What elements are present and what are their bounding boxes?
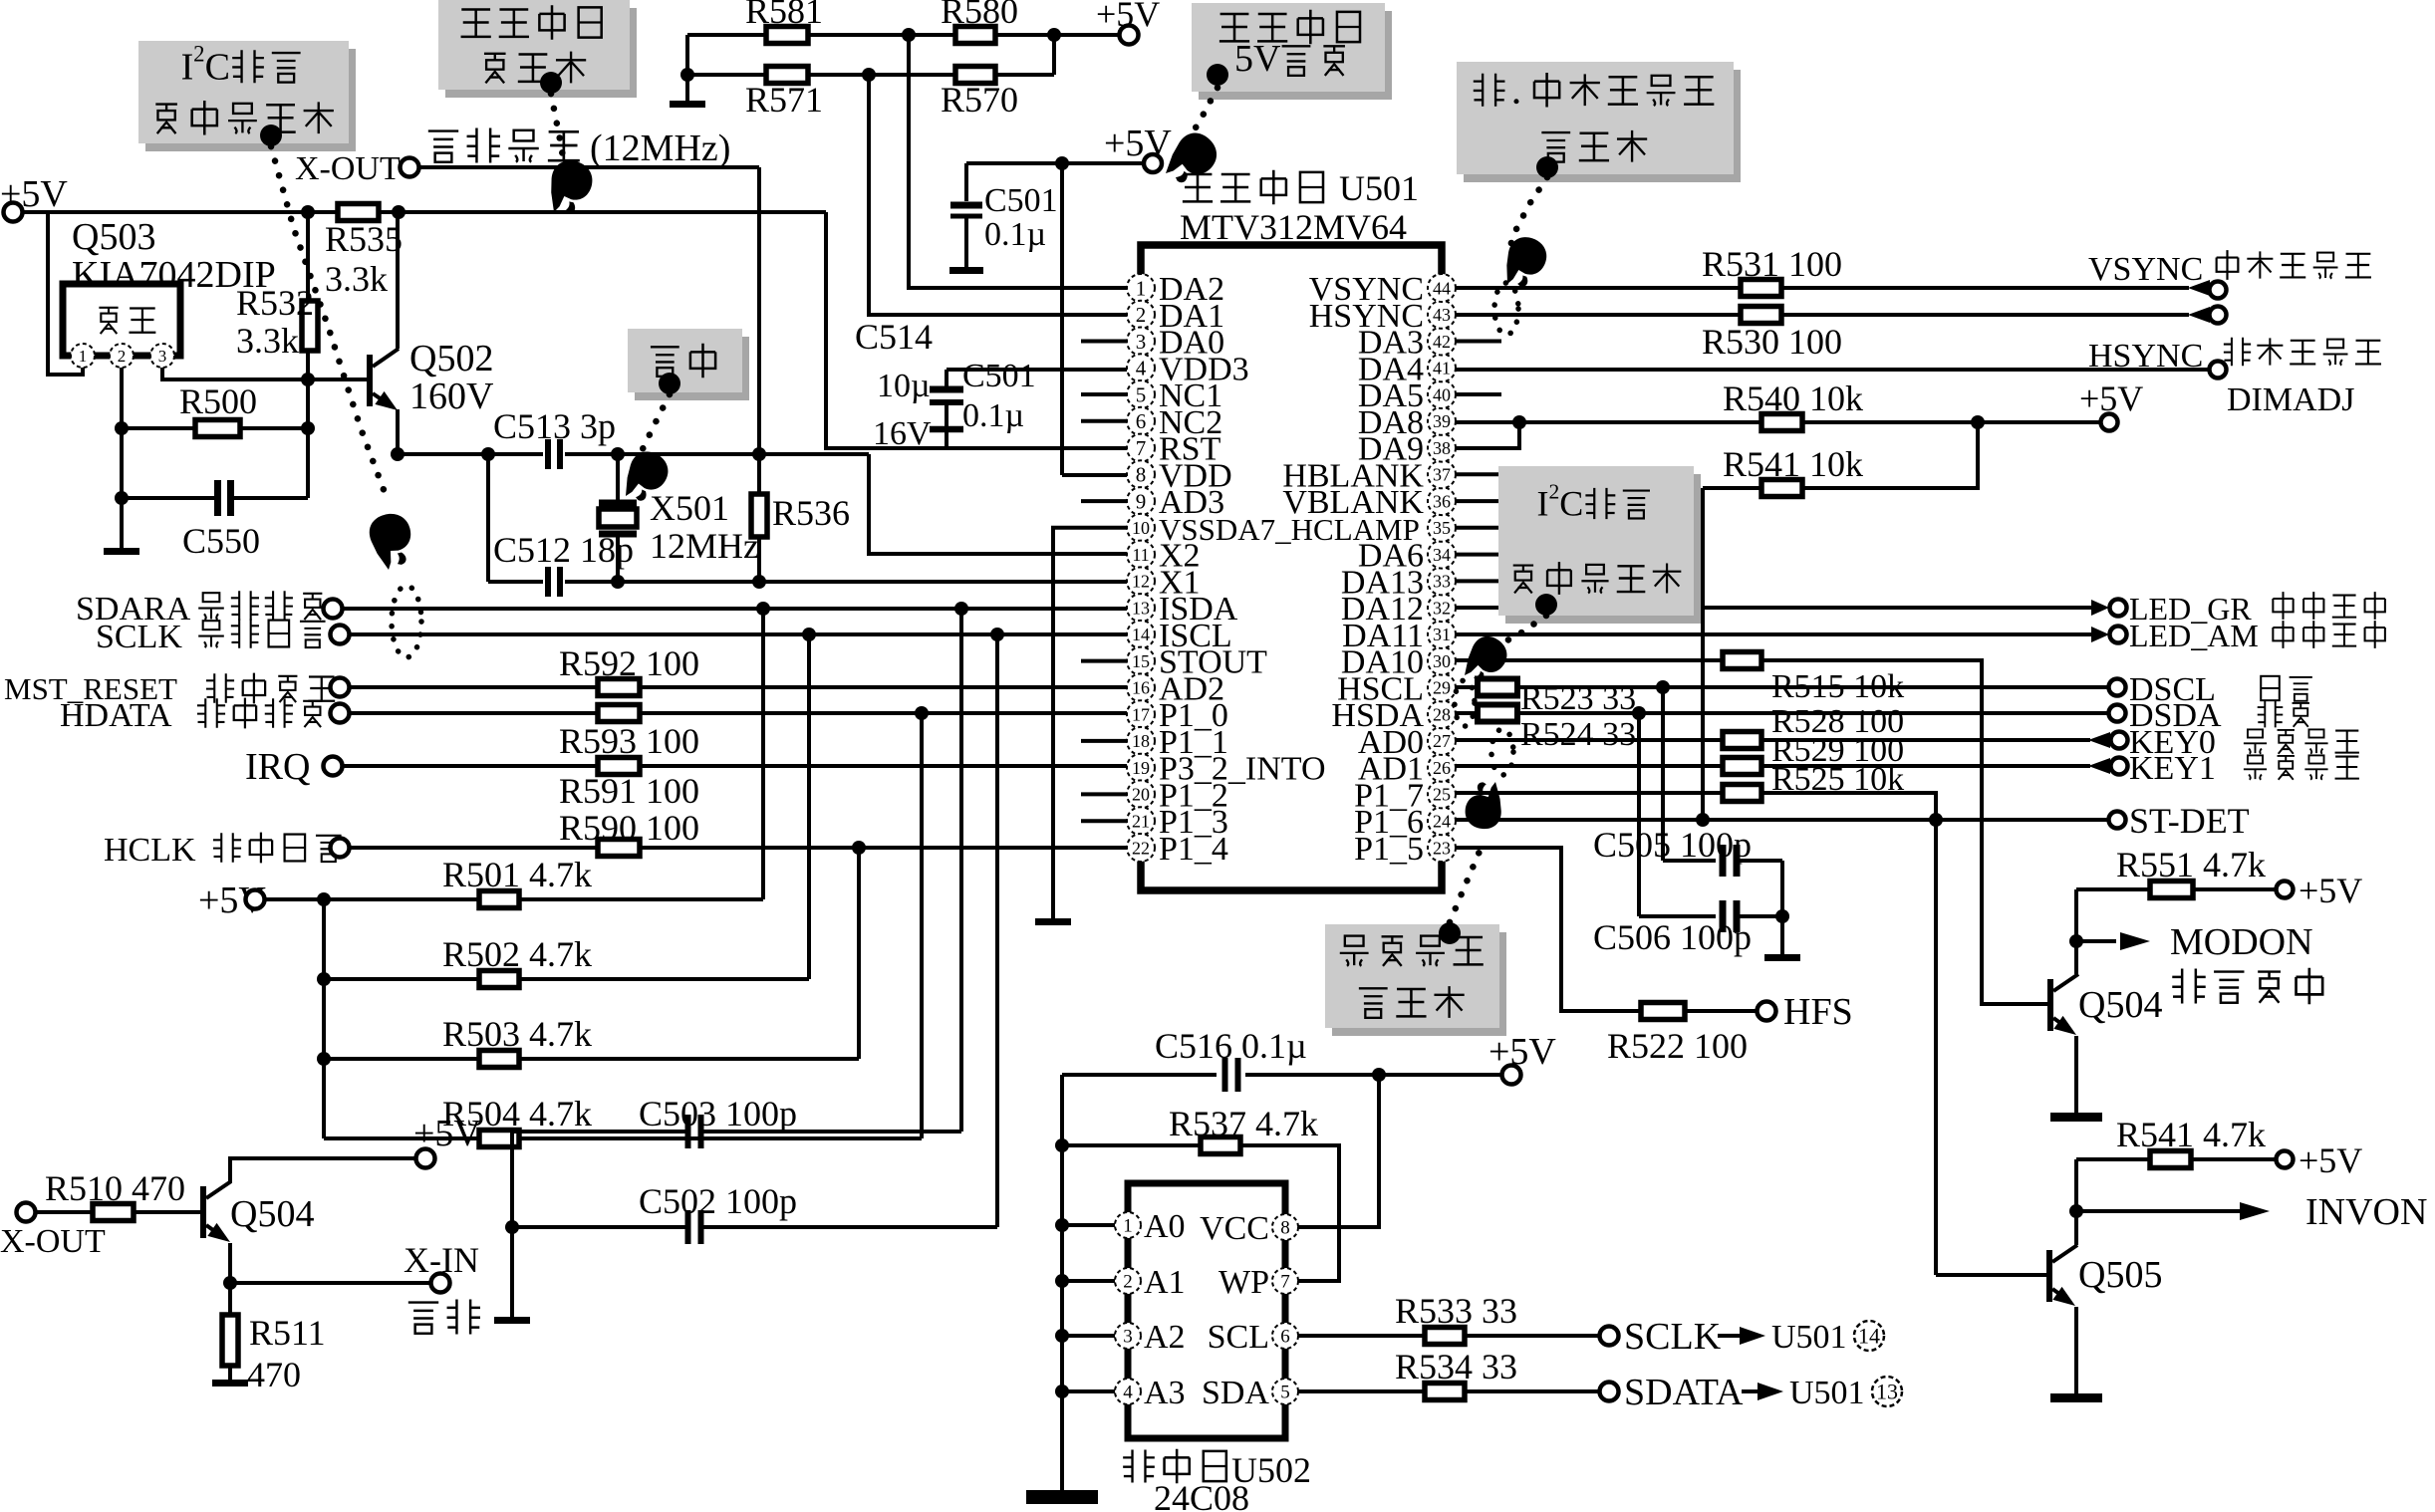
wire R532 top [306, 212, 310, 301]
wire C512 left branch [486, 454, 490, 582]
wire pin25 to R525 [1456, 791, 1723, 795]
wire pin23 to R522 [1456, 848, 1641, 1011]
svg-text:14: 14 [1858, 1324, 1880, 1349]
junction HDATA/R504 [915, 706, 929, 720]
reset IC Q503 box [63, 284, 180, 356]
svg-text:A1: A1 [1144, 1264, 1186, 1301]
C501 bottom lead [964, 218, 968, 267]
arrow HSYNC [2188, 307, 2210, 323]
wire Q503 pin2 down [120, 368, 124, 498]
pin 9 U501 [1127, 487, 1155, 515]
label wenya kongzhi [2172, 968, 2322, 1004]
pin 37 U501 [1428, 460, 1456, 488]
dotted line fuweiduan [551, 94, 566, 174]
pin 28 U501 [1428, 700, 1456, 728]
svg-text:41: 41 [1433, 359, 1451, 378]
wire R571-R570 [808, 73, 955, 77]
pin 15 U501 [1127, 647, 1155, 675]
svg-text:R533 33: R533 33 [1395, 1291, 1517, 1331]
pin 11 U501 [1127, 541, 1155, 569]
pin 17 U501 [1127, 700, 1155, 728]
ground C501 [949, 267, 983, 274]
capacitor C505 [1723, 845, 1737, 877]
pin 8 U502 [1272, 1214, 1298, 1240]
ground Q504r [2050, 1113, 2102, 1122]
junction +5V/R532 [301, 205, 315, 219]
svg-text:U501: U501 [1789, 1375, 1865, 1411]
svg-text:4: 4 [1136, 357, 1147, 380]
svg-text:C501: C501 [962, 358, 1036, 394]
svg-text:ST-DET: ST-DET [2129, 801, 2250, 841]
capacitor C503 [688, 1115, 701, 1148]
wire R501 right [519, 897, 763, 901]
Q504bl emitter arrow [207, 1223, 234, 1249]
hand jiankong up [1464, 780, 1503, 831]
terminal SCLK [1600, 1327, 1619, 1346]
Q505 collector diag [2052, 1245, 2077, 1262]
junction R540/R541 [1971, 415, 1985, 429]
resistor R593 (HDATA row) [598, 705, 640, 722]
stub pin 9 [1081, 499, 1127, 503]
resistor R570 [955, 67, 995, 84]
svg-text:2: 2 [118, 347, 127, 366]
wire to ground C550 [120, 498, 124, 548]
svg-text:30: 30 [1433, 651, 1451, 671]
stub pin 35 [1456, 526, 1501, 530]
pin 40 U501 [1428, 380, 1456, 408]
junction A2 [1055, 1329, 1069, 1343]
pin 44 U501 [1428, 274, 1456, 302]
pin 6 U501 [1127, 407, 1155, 435]
svg-text:17: 17 [1132, 705, 1150, 725]
wire pin43 to R530 [1456, 313, 1741, 317]
junction R571 left [680, 68, 694, 82]
svg-text:Q505: Q505 [2078, 1254, 2162, 1296]
svg-text:R532: R532 [236, 283, 314, 323]
svg-text:R535: R535 [325, 219, 403, 259]
ground VSS [1035, 918, 1071, 925]
svg-text:C503 100p: C503 100p [639, 1094, 797, 1134]
pin 7 U501 [1127, 434, 1155, 462]
svg-text:X-OUT: X-OUT [0, 1223, 106, 1260]
pin 42 U501 [1428, 328, 1456, 356]
svg-text:0.1µ: 0.1µ [984, 216, 1046, 253]
wire VCC to +5V [1298, 1075, 1379, 1227]
svg-text:34: 34 [1433, 545, 1451, 565]
terminal X-OUT top [401, 158, 419, 177]
svg-text:11: 11 [1132, 545, 1149, 565]
wire R540 to +5V [1802, 420, 2100, 424]
wire C505/C506 to ground [1780, 861, 1784, 954]
arrow SDATA to U501 [1758, 1383, 1783, 1400]
arrow LED_AM [2091, 627, 2109, 642]
svg-text:33: 33 [1433, 572, 1451, 592]
svg-text:2: 2 [1123, 1272, 1133, 1293]
Q505 emitter arrow [2052, 1287, 2079, 1313]
wire C502 right [702, 1225, 997, 1229]
wire C506 left [1639, 914, 1716, 918]
stub pin 18 [1081, 739, 1127, 743]
wire R515 to Q504 base [1761, 660, 2047, 1004]
label xianshi qudong GR [2273, 592, 2385, 620]
wire R541b to +5V [2191, 1157, 2275, 1161]
svg-text:A2: A2 [1144, 1319, 1186, 1356]
terminal +5V pullups [246, 890, 265, 909]
resistor R522 [1641, 1003, 1685, 1020]
svg-text:+5V: +5V [1488, 1031, 1556, 1073]
wire ISDA pullup [761, 609, 765, 899]
svg-text:MODON: MODON [2170, 921, 2313, 963]
callout dot jingti [659, 373, 680, 394]
svg-text:DA6: DA6 [1358, 538, 1424, 575]
junction Q502 emitter/crystal [391, 447, 405, 461]
wire R570 right [995, 73, 1054, 77]
label jiankong KEY1 [2244, 755, 2359, 779]
callout jiankong [1325, 924, 1506, 1036]
label shizhong [2261, 676, 2312, 701]
svg-text:+5V: +5V [2299, 1140, 2362, 1180]
stub pin 15 [1081, 659, 1127, 663]
X501 top lead [616, 454, 620, 501]
resistor R530 [1741, 307, 1781, 324]
pin 4 U501 [1127, 354, 1155, 381]
svg-text:2: 2 [1136, 303, 1147, 327]
crystal bottom wire to pin12 [565, 580, 1127, 584]
junction R537 [1055, 1138, 1069, 1152]
svg-text:X-OUT: X-OUT [295, 150, 401, 187]
resistor R531 [1741, 280, 1781, 297]
wire U502 pin 1 [1062, 1223, 1115, 1227]
svg-text:13: 13 [1876, 1380, 1898, 1404]
wire VDD3 to C514 [945, 370, 948, 386]
wire IRQ left [343, 764, 598, 768]
pin 22 U501 [1127, 834, 1155, 862]
svg-text:6: 6 [1136, 409, 1147, 433]
wire MODON [2076, 939, 2116, 943]
junction R581/pin1 [902, 28, 916, 42]
svg-text:U501: U501 [1771, 1319, 1847, 1356]
svg-text:C516 0.1µ: C516 0.1µ [1155, 1026, 1307, 1066]
pin 6 U502 [1272, 1323, 1298, 1349]
circled 13 [1872, 1377, 1902, 1406]
svg-text:Q504: Q504 [2078, 984, 2162, 1026]
pin 19 U501 [1127, 754, 1155, 782]
dotted ellipse jiankong [1491, 729, 1513, 775]
arrow VSYNC [2188, 280, 2210, 296]
wire C502 left [512, 1225, 686, 1229]
crystal top wire left [398, 452, 543, 456]
junction ISDA/C503 [954, 602, 968, 616]
junction HCLK/R503 [852, 841, 866, 855]
pin 35 U501 [1428, 514, 1456, 542]
svg-text:A3: A3 [1144, 1375, 1186, 1411]
svg-text:3: 3 [1136, 330, 1147, 354]
svg-text:5: 5 [1136, 382, 1147, 406]
svg-text:12MHz: 12MHz [650, 526, 759, 566]
svg-text:I: I [1537, 484, 1549, 524]
wire crystal node to pin11 [869, 454, 1127, 554]
svg-text:42: 42 [1433, 332, 1451, 352]
svg-text:7: 7 [1280, 1272, 1290, 1293]
wire pin44 to R531 [1456, 286, 1741, 290]
terminal X-OUT bottom [17, 1203, 36, 1222]
junction X501 bottom [611, 575, 625, 589]
svg-text:R530 100: R530 100 [1702, 322, 1842, 362]
junction C505 [1656, 680, 1670, 694]
resistor R580 [955, 27, 995, 44]
pin 1 U501 [1127, 274, 1155, 302]
ground Q505 [2050, 1393, 2102, 1402]
pin 43 U501 [1428, 301, 1456, 329]
wire pullup rail vertical [322, 899, 326, 1138]
arrow SCLK to U501 [1740, 1327, 1765, 1345]
junction pin39/38 [1512, 415, 1526, 429]
wire +5V rail to R535 [23, 210, 338, 214]
terminal HDATA [331, 704, 350, 723]
svg-text:5V: 5V [1234, 38, 1281, 80]
svg-text:SCLK: SCLK [96, 619, 182, 655]
wire R529 to KEY1 [1761, 764, 2090, 768]
capacitor C506 [1723, 900, 1737, 932]
arrow line SDATA [1742, 1389, 1761, 1393]
svg-text:+5V: +5V [1096, 0, 1160, 34]
resistor R524 [1478, 705, 1517, 722]
pin 27 U501 [1428, 727, 1456, 755]
C501 top lead [964, 163, 968, 201]
svg-text:26: 26 [1433, 758, 1451, 778]
wire C506 right [1737, 914, 1782, 918]
wire pin24 ST-DET [1456, 818, 2108, 822]
resistor R503 [479, 1051, 519, 1068]
svg-text:19: 19 [1132, 758, 1150, 778]
wire X-OUT to corner [419, 165, 759, 169]
wire C516 left [1062, 1073, 1217, 1077]
callout dot I2C right [1535, 594, 1557, 616]
wire pin31 LED_AM [1456, 632, 2092, 636]
svg-text:37: 37 [1433, 465, 1451, 485]
svg-text:40: 40 [1433, 384, 1451, 404]
ground R511 [212, 1380, 248, 1386]
svg-text:HCLK: HCLK [104, 832, 196, 869]
svg-text:15: 15 [1132, 651, 1150, 671]
pin 10 U501 [1127, 514, 1155, 542]
C514 bottom lead [945, 429, 948, 448]
wire R528 to KEY0 [1761, 738, 2090, 742]
resistor R540 [1761, 414, 1802, 431]
dotted line tongbu [1508, 177, 1547, 251]
svg-text:HDATA: HDATA [60, 697, 172, 734]
resistor R541 bottom [2150, 1151, 2191, 1168]
capacitor C513 [548, 439, 560, 469]
pin 4 U502 [1115, 1379, 1141, 1404]
pin 3 Q503 [150, 344, 174, 368]
X501 bottom lead [616, 536, 620, 582]
capacitor C501 top [950, 202, 982, 209]
wire X-OUT to R510 [36, 1210, 93, 1214]
svg-text:MTV312MV64: MTV312MV64 [1180, 207, 1407, 247]
svg-text:28: 28 [1433, 705, 1451, 725]
svg-text:16: 16 [1132, 678, 1150, 698]
wire R503 left [324, 1057, 479, 1061]
terminal +5V R540 [2101, 414, 2118, 431]
terminal +5V Q504bl [416, 1149, 435, 1168]
terminal +5V mid [1144, 154, 1162, 172]
wire MST_RESET left [350, 685, 598, 689]
label jiankong KEY0 [2244, 729, 2359, 753]
svg-text:16V: 16V [873, 415, 932, 452]
callout jingti [628, 329, 749, 400]
terminal KEY0 [2111, 732, 2128, 749]
wire ISCL pullup [807, 634, 811, 979]
label jingzhen bottom [408, 1300, 480, 1335]
pin 26 U501 [1428, 754, 1456, 782]
svg-text:C550: C550 [182, 521, 260, 561]
svg-text:C501: C501 [984, 182, 1058, 219]
svg-text:9: 9 [1136, 489, 1147, 513]
dotted ellipse I2C right [1455, 680, 1475, 726]
stub pin 20 [1081, 792, 1127, 796]
junction INVON [2069, 1204, 2083, 1218]
wire pin28 stub [1456, 711, 1478, 715]
wire R504 right [519, 1136, 922, 1140]
wire R541 to +5V [1802, 422, 1978, 488]
svg-text:3: 3 [158, 347, 167, 366]
Q504r emitter wire [2074, 1036, 2078, 1113]
wire RST to pin7 [826, 212, 1127, 448]
svg-text:3.3k: 3.3k [236, 321, 299, 361]
wire pin27 to R528 [1456, 738, 1723, 742]
stub pin 42 [1456, 340, 1501, 344]
svg-text:44: 44 [1433, 278, 1451, 298]
pin 29 U501 [1428, 673, 1456, 701]
dotted ellipse tongbu [1494, 283, 1518, 335]
resistor R536 [751, 494, 767, 537]
wire C550 left [122, 496, 217, 500]
junction C502 left [505, 1220, 519, 1234]
pin 3 U502 [1115, 1323, 1141, 1349]
terminal VSYNC [2210, 282, 2227, 299]
capacitor C502 [688, 1210, 701, 1244]
wire C503 to ISDA [959, 609, 963, 1132]
resistor R535 [338, 204, 379, 221]
wire R532 bottom [306, 351, 310, 498]
stub pin 3 [1081, 340, 1127, 344]
wire HCLK right [640, 846, 1127, 850]
wire R570 to +5V rail [1052, 35, 1056, 75]
svg-text:1: 1 [79, 347, 88, 366]
pin 21 U501 [1127, 807, 1155, 835]
svg-text:R522 100: R522 100 [1607, 1026, 1748, 1066]
wire C506 vertical [1637, 713, 1641, 916]
pin 1 U502 [1115, 1212, 1141, 1238]
svg-text:8: 8 [1136, 463, 1147, 487]
svg-text:VSYNC: VSYNC [2088, 251, 2203, 288]
terminal +5V R541b [2277, 1151, 2294, 1168]
dotted line I2C right [1485, 616, 1546, 649]
junction C512 branch [481, 447, 495, 461]
svg-text:24: 24 [1433, 812, 1451, 832]
wire +5V to Q503 pin1 [48, 212, 83, 375]
stub pin 6 [1081, 419, 1127, 423]
callout dot 5V gongdian [1207, 64, 1228, 86]
resistor R541 [1761, 480, 1802, 497]
dash pin2-3 [135, 355, 148, 358]
svg-text:I: I [181, 47, 194, 89]
junction ISDA/R501 [756, 602, 770, 616]
wire R525 corner [1761, 793, 1936, 820]
wire C516 right to +5V [1245, 1073, 1501, 1077]
svg-text:(12MHz): (12MHz) [590, 127, 730, 169]
wire R533 to SCLK [1465, 1334, 1599, 1338]
resistor R511 [222, 1315, 238, 1366]
svg-text:WP: WP [1218, 1264, 1269, 1301]
wire pin32 LED_GR [1456, 606, 2092, 610]
pin 34 U501 [1428, 541, 1456, 569]
terminal +5V R551 [2277, 882, 2294, 898]
svg-text:KEY1: KEY1 [2129, 750, 2216, 787]
svg-text:21: 21 [1132, 812, 1150, 832]
label weichuliqi U501 [1183, 170, 1323, 205]
IC U501 box [1141, 245, 1442, 890]
svg-text:SCL: SCL [1208, 1319, 1269, 1356]
resistor R533 [1425, 1328, 1465, 1345]
terminal LED_AM [2110, 627, 2127, 643]
resistor R581 [766, 27, 808, 44]
resistor R504 [479, 1131, 519, 1147]
wire R502 right [519, 977, 809, 981]
Q505 collector wire [2074, 1159, 2078, 1245]
wire R537 left [1062, 1143, 1201, 1147]
arrow KEY0 [2088, 732, 2110, 748]
label hang tongbu [2224, 338, 2381, 367]
svg-text:+5V: +5V [2299, 871, 2362, 910]
resistor R592 (MST_RESET row) [598, 679, 640, 696]
wire to Q505 base [1934, 820, 1938, 1275]
wire INVON [2076, 1209, 2240, 1213]
IC U502 box [1128, 1183, 1285, 1438]
callout dot left I2C [260, 125, 282, 146]
svg-text:22: 22 [1132, 838, 1150, 858]
svg-text:39: 39 [1433, 411, 1451, 431]
resistor R502 [479, 971, 519, 988]
junction ISCL/C502 [990, 628, 1004, 641]
pin 39 U501 [1428, 407, 1456, 435]
pin 16 U501 [1127, 673, 1155, 701]
dotted line jingti [641, 394, 670, 453]
junction MODON [2069, 934, 2083, 948]
wire Q503 pin3 to Q502 base [162, 368, 367, 379]
stub pin 21 [1081, 819, 1127, 823]
junction pullup rail [317, 892, 331, 906]
pin 32 U501 [1428, 594, 1456, 622]
terminal DSCL [2109, 679, 2126, 696]
wire pin26 to R529 [1456, 764, 1723, 768]
resistor R532 [302, 301, 318, 351]
wire C503 left [512, 1130, 686, 1134]
svg-text:12: 12 [1132, 572, 1150, 592]
wire down to crystal node [757, 167, 761, 454]
svg-text:10: 10 [1132, 518, 1150, 538]
wire +5V to pin8 [1060, 163, 1064, 475]
junction pin2/R500 [115, 421, 129, 435]
junction C506 [1632, 706, 1646, 720]
wire C502 to ISCL [995, 634, 999, 1227]
Q502 emitter wire [396, 409, 400, 454]
wire R551 to +5V [2193, 887, 2275, 891]
svg-text:14: 14 [1132, 625, 1150, 644]
resistor R529 [1723, 758, 1761, 775]
terminal +5V top [1120, 26, 1139, 45]
